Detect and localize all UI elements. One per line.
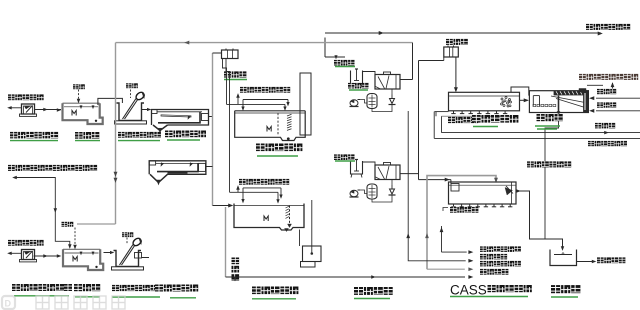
clarifier scraper strip [554, 91, 588, 95]
well#2 bottom stub [443, 57, 445, 61]
clarifier inlet baffles [532, 96, 534, 106]
wire: riser to 厌氧#2 inlet [213, 205, 233, 207]
gray sludge line over CASS [427, 176, 496, 270]
coarse screen well #1 粗格栅集水井 [22, 104, 35, 114]
label 厌氧水解池 #2 [252, 286, 298, 295]
draft tube mixer #1 [277, 113, 279, 136]
label 接总排池 (row4) [480, 269, 508, 276]
label 反应罐 #1 [348, 83, 369, 89]
pipe floc->DAF #2 [363, 162, 376, 165]
label 去气体处理设备 #2 [239, 179, 289, 186]
wire: well#1 to 调节池#1 [35, 109, 62, 111]
label 去污泥浓缩池 row3 [480, 261, 521, 267]
label 隔油沉淀池 #2 [155, 284, 198, 292]
label 接总排 #1 [597, 89, 616, 95]
DAF flotation tank #2 [375, 165, 400, 180]
main drop pipe x=418.5 (to CASS) [418, 61, 420, 180]
label 来自鼓风机房 right [588, 141, 627, 147]
oil tank #2 hopper [150, 174, 168, 182]
overflow line 接总排 #1 [596, 97, 640, 99]
gray drop pipe x=115.5 [115, 43, 117, 224]
hopper dot #1 [287, 137, 290, 140]
label 气浮装置 [354, 287, 393, 296]
oil tank #1 outlet box [202, 114, 209, 121]
watermark bottom-left [2, 296, 15, 309]
coarse screen well #2 [22, 250, 35, 260]
outlet 隔油#1 to riser [209, 116, 213, 118]
label 高浓度污水 [8, 94, 44, 101]
tank #2 sump dot [95, 266, 97, 268]
main discharge header 接总排 (long) [226, 276, 466, 278]
flocculant tank #1 [351, 71, 363, 84]
DAF#1 feed drop x=412.5 [412, 43, 414, 80]
air riser to CASS [441, 226, 443, 252]
diffusers under aeration tank [453, 111, 455, 114]
labels 鼓风曝气 + 推流曝气池 [448, 117, 478, 124]
draft tube mixer #2 [289, 206, 291, 227]
supernatant pipe [14, 178, 70, 248]
pipe floc->DAF #1 [363, 72, 376, 75]
gas vent #2 [237, 187, 239, 192]
gas riser column on tank #1 [300, 73, 311, 135]
label 中浓度污水 [8, 240, 44, 247]
junction box at x=325 [324, 38, 326, 58]
CASS diffusers [453, 204, 455, 207]
lime dosing line #3 [74, 228, 76, 248]
CASS outlet to buffer tank [516, 191, 563, 250]
drain line 接总排 #2 [596, 110, 640, 112]
pump pit box [303, 246, 322, 262]
label 鼓风曝气 #2 with leader [443, 208, 448, 212]
screen rake #2 [120, 245, 134, 266]
label 絮凝剂 #2 [334, 154, 355, 160]
gray air pipe under tank [442, 115, 513, 117]
arrow out left #1 [9, 107, 22, 109]
feed pipes from well #1 (double drop) [223, 59, 227, 105]
air header line to diffusers [435, 111, 449, 113]
wire: 调节池#2 to 机械格栅#2 [104, 252, 114, 254]
label 石灰 #1 [73, 84, 85, 90]
CASS reactor tank [449, 182, 517, 204]
labels row1: 粗格栅集水井 / 调节池 / 机械格栅集水井 / 隔油沉淀池 [10, 132, 58, 139]
pressure pump #2 [390, 189, 395, 194]
CASS inlet distribution box [451, 184, 459, 192]
CASS inlet line [419, 179, 451, 181]
tank #1 water line [64, 106, 98, 108]
mechanical screen well #1 机械格栅 [117, 103, 145, 121]
label 接总排 #3 [595, 123, 615, 129]
drain down pipe from 厌氧#2 with vertical text [225, 207, 227, 277]
feed header into 厌氧水解池#2 (double) [230, 191, 279, 193]
label 石灰 #2 [126, 83, 138, 89]
recycle pump #2 [350, 190, 358, 196]
secondary clarifier tank 二沉池 [529, 91, 588, 113]
tank 调节池 #2 (grey walls + sump) [63, 249, 103, 270]
plug flow aeration tank 推流曝气池 [449, 92, 520, 111]
saturation vessel #1 [367, 94, 377, 109]
label 来自鼓风机房 row1 [480, 246, 521, 252]
clarifier chain flights [533, 104, 536, 106]
right-edge utility lines [408, 111, 466, 261]
DAF#2 outlet line [400, 173, 419, 175]
arrow out left #2 [9, 252, 22, 254]
clarifier slope lines [556, 99, 585, 108]
oil tank #2 outlet box [199, 163, 206, 171]
aeration outlet to clarifier top [511, 87, 529, 96]
oil separation tank #1 隔油沉淀池 [152, 110, 209, 126]
label 自浓缩池上清液、脱水间污水 [8, 165, 97, 172]
label 去污泥浓缩池 mid (above CASS) [527, 161, 571, 168]
wire: 机械格栅#1 to 隔油沉淀池#1 [142, 109, 151, 111]
label 机械格栅集水井 #2 [112, 285, 158, 292]
label 石灰 #4 [122, 232, 133, 237]
DAF piping #1 [360, 100, 367, 104]
distribution well #2 配水井 [444, 47, 459, 57]
lime dosing line #1 [78, 90, 80, 102]
recycle pump #1 [350, 100, 358, 106]
wire to lime/调节池#2 top [77, 223, 116, 225]
gas vent to 去气体处理设备 #1 [237, 95, 239, 104]
oil tank #1 sludge hopper [153, 125, 168, 131]
DAF flotation tank #1 [375, 75, 400, 90]
label 去污泥浓缩池 top-right [586, 24, 630, 31]
aeration outlet arrow [520, 99, 528, 101]
buffer tank 缓冲池 [550, 250, 577, 266]
wire: 机械格栅#2 to 隔油#2 [141, 257, 149, 259]
label 排入排管 [597, 257, 625, 264]
screen rake #1 [123, 99, 137, 120]
tank #1 sump dot [95, 120, 97, 122]
label 接总排 #2 [597, 102, 616, 108]
tank #1 outlet up-over pipe [98, 98, 123, 105]
label 去气体处理设备 #1 [240, 87, 290, 94]
hopper dot #2 [285, 229, 289, 232]
label 缓冲池 [551, 285, 580, 294]
label 厌氧水解池 #1 [256, 143, 302, 152]
outlet 隔油#2 to riser [206, 166, 213, 168]
clarifier right wall dark [584, 91, 589, 113]
link well#2 bottom to drop x=418.5 [419, 60, 444, 62]
mechanical screen well #2 [114, 251, 142, 267]
pressure pump #1 [390, 99, 395, 104]
DAF piping #2 [360, 190, 367, 194]
tank #2 water line [65, 252, 99, 254]
label 石灰 #3 [62, 222, 74, 228]
bubble marks riser #1 [287, 114, 292, 116]
screen motor bell #2 [132, 237, 143, 247]
long line 接总排 #3 [442, 132, 640, 134]
label 配水井 #1 [224, 71, 246, 78]
screen base flange #1 [115, 121, 147, 124]
labels row2 bottom: 粗格栅集水井、调节池 [12, 284, 64, 292]
label 配水井 #2 [446, 39, 468, 46]
pipe from tank#2 to pump pit [299, 230, 301, 247]
blower air line 来自鼓风机房 [434, 137, 640, 139]
label 二沉池 [537, 114, 563, 122]
well#2 to aeration tank drop [455, 57, 457, 91]
anaerobic tank 厌氧水解池 #2 [234, 204, 304, 231]
tank 调节池 #1 (grey walls + sump) [63, 103, 103, 124]
clarifier drive unit [579, 89, 586, 93]
CASS decanter [505, 188, 513, 196]
feed header into 厌氧水解池#1 (double) [227, 103, 286, 105]
gray transfer line y=42.6 [116, 42, 413, 44]
svg-text:D: D [5, 299, 12, 309]
sludge return line top 自初沉池污泥回流 [587, 84, 603, 86]
saturation vessel #2 [367, 184, 377, 199]
oil separation tank #2 隔油沉淀池 [149, 161, 206, 175]
label 絮凝剂 #1 [334, 60, 355, 66]
flocculant tank #2 [351, 161, 363, 174]
CASS baffle [511, 182, 513, 204]
oil tank #1 scraper plate [161, 115, 191, 117]
sludge line to 去污泥浓缩池 (top) [325, 32, 601, 34]
gas riser line #2 [311, 200, 313, 253]
clarifier center sludge pipe [558, 96, 560, 114]
anaerobic tank 厌氧水解池 #1 [235, 111, 306, 141]
bubble cluster [501, 98, 503, 100]
label 去缓冲池 row2 [480, 254, 507, 260]
outlet to discharge [577, 261, 596, 263]
gray riser pipe x=212 (to distribution well #1) [212, 53, 214, 206]
clarifier drain route to buffer [545, 114, 559, 240]
screen motor bell #1 [135, 91, 146, 101]
distribution well #1 配水井 [213, 52, 222, 54]
wire: well#2 to 调节池#2 [34, 255, 61, 257]
screen base flange #2 [112, 267, 144, 270]
svg-text:CASS: CASS [450, 283, 487, 298]
